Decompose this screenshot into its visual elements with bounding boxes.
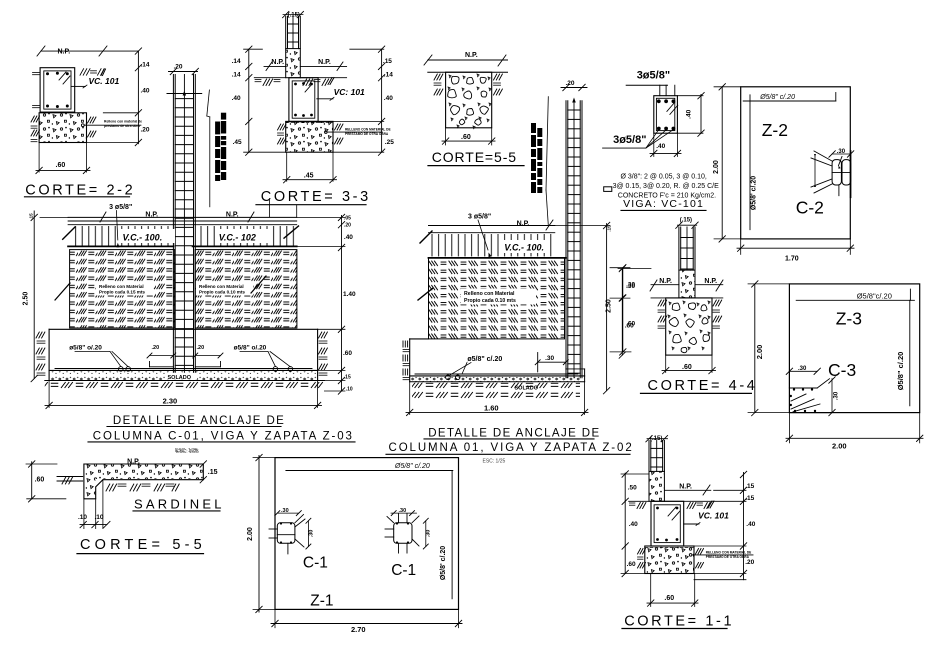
svg-text:.20: .20	[141, 127, 150, 134]
corte 1-1: footing side hatch right	[696, 549, 699, 555]
Z-3: left dim line 2.00	[754, 284, 756, 413]
svg-text:2.50: 2.50	[606, 299, 613, 313]
Z-3: C-3 break diagonal	[817, 379, 829, 388]
svg-text:2.50: 2.50	[23, 292, 30, 306]
sardinel: curb speckles	[85, 465, 203, 480]
corte 1-1: glass break diagonal	[668, 507, 676, 516]
svg-text:.60: .60	[343, 350, 352, 357]
Z-03: N.P. tick slashes	[100, 212, 106, 222]
svg-text:Propio cada 0.15 mts: Propio cada 0.15 mts	[99, 290, 145, 295]
ladder2: thin leader line with arrow	[572, 98, 576, 103]
svg-text:C-1: C-1	[303, 555, 328, 572]
corte 3-3: right dimension line	[381, 49, 383, 152]
ladder1: vertical note text blocks	[215, 122, 220, 135]
svg-text:.40: .40	[686, 109, 693, 118]
svg-text:Relleno con Material: Relleno con Material	[464, 291, 515, 297]
Z-02: solado bottom line	[410, 381, 585, 383]
ladder1: rails and rungs	[172, 75, 174, 375]
svg-text:.45: .45	[233, 139, 242, 146]
svg-text:ø5/8" o/.20: ø5/8" o/.20	[69, 345, 102, 352]
svg-text:.30: .30	[545, 355, 554, 362]
viga: caption underline	[621, 209, 706, 211]
svg-text:VIGA: VC-101: VIGA: VC-101	[623, 198, 704, 210]
svg-text:.40: .40	[384, 95, 393, 102]
svg-text:VC. 101: VC. 101	[89, 76, 120, 86]
svg-text:Ø 3/8": 2 @ 0.05, 3 @ 0.10,: Ø 3/8": 2 @ 0.05, 3 @ 0.10,	[621, 174, 707, 181]
svg-text:2.00: 2.00	[247, 527, 254, 541]
svg-text:.20: .20	[197, 345, 205, 351]
svg-text:1.40: 1.40	[343, 291, 356, 298]
corte 3-3: beam stirrup rect	[292, 81, 315, 118]
Z-02: footing outline	[410, 338, 429, 340]
corte 1-1: bottom dim .60	[650, 574, 652, 607]
corte 4-4: side hatch left	[658, 300, 661, 306]
svg-text:.60: .60	[35, 477, 45, 484]
Z-03: right dim column	[341, 216, 343, 392]
beam detail: VIGA VC-101	[603, 70, 719, 211]
svg-text:CORTE= 4-4: CORTE= 4-4	[648, 378, 758, 394]
svg-text:.14: .14	[232, 72, 241, 79]
svg-text:Ø5/8"c/.20: Ø5/8"c/.20	[857, 291, 892, 300]
viga: rebar dots top	[657, 99, 661, 103]
svg-text:Propio cada 0.10 mts: Propio cada 0.10 mts	[464, 298, 516, 304]
sardinel: left dim .60	[31, 462, 33, 499]
svg-text:.40: .40	[629, 521, 638, 528]
corte 3-3: glass break diagonal	[305, 84, 312, 92]
corte 3-3: ground hatch right	[300, 77, 346, 79]
svg-text:N.P.: N.P.	[58, 49, 71, 56]
corte 3-3: leader to label	[317, 98, 333, 100]
corte 1-1: left dim .50	[624, 473, 626, 501]
svg-text:.14: .14	[384, 72, 393, 79]
Z-1: outline rect	[275, 458, 459, 610]
corte 3-3: leader to fill note	[325, 131, 328, 134]
corte 2-2: title underline	[25, 196, 130, 198]
viga: stirrup drop lines	[659, 85, 661, 96]
corte 4-4: bottom dim .60	[665, 355, 667, 372]
corte 5-5: side hatch right	[494, 74, 497, 80]
sardinel: dims .10 .10	[83, 499, 85, 529]
Z-03: left wall hatch block	[70, 250, 175, 328]
svg-text:V.C.- 100.: V.C.- 100.	[504, 243, 544, 253]
svg-text:SOLADO: SOLADO	[168, 375, 192, 381]
svg-text:CORTE= 2-2: CORTE= 2-2	[25, 182, 135, 198]
svg-text:3 ø5/8": 3 ø5/8"	[468, 214, 491, 221]
Z-2: C-2 tie fan lines	[814, 151, 832, 161]
viga: beam outer rect	[654, 96, 678, 134]
svg-text:3ø5/8": 3ø5/8"	[613, 134, 646, 146]
Z-03: solado dots row	[50, 372, 317, 381]
corte 1-1: footing concrete	[645, 546, 694, 574]
ladder2: vertical note text blocks	[531, 123, 536, 133]
Z-03: bottom dim 2.30	[48, 381, 50, 408]
svg-text:N.P.: N.P.	[659, 278, 672, 285]
corte 4-4: left dims	[621, 269, 623, 356]
Z-02: right dim 2.50	[606, 224, 608, 391]
corte 5-5: gravel block with stones	[446, 72, 492, 128]
section title group: CORTE 4-4	[618, 218, 757, 395]
Z-02: bottom dim 1.60	[409, 382, 411, 415]
corte 3-3: speckled column above ground	[286, 49, 301, 78]
Z-02: beam band with ticks	[430, 234, 554, 256]
viga: right dim .40 rotated	[700, 94, 702, 133]
detail: SARDINEL curb, corte 5-5 bottom	[26, 449, 225, 554]
svg-text:V.C.- 102: V.C.- 102	[219, 233, 256, 243]
Z-03: column base hooks	[150, 366, 174, 368]
svg-text:.20: .20	[745, 559, 754, 566]
svg-text:C-3: C-3	[828, 360, 856, 380]
svg-text:N.P.: N.P.	[318, 59, 331, 66]
corte 5-5: slab outline	[428, 59, 508, 61]
corte 1-1: ground lines and hatch	[629, 500, 649, 502]
svg-text:.30: .30	[834, 391, 840, 400]
svg-text:3@ 0.15, 3@ 0.20, R. @ 0.25 C/: 3@ 0.15, 3@ 0.20, R. @ 0.25 C/E	[613, 183, 719, 190]
svg-text:Relleno con material de: Relleno con material de	[104, 120, 142, 124]
svg-text:2.30: 2.30	[163, 397, 178, 406]
svg-text:.50: .50	[628, 485, 637, 492]
svg-text:Ø5/8" c/.20: Ø5/8" c/.20	[394, 463, 430, 470]
Z-03: slab top lines	[68, 216, 297, 218]
svg-text:.05: .05	[344, 216, 351, 222]
section title group: CORTE 2-2	[25, 46, 150, 198]
svg-text:.10: .10	[95, 514, 104, 521]
Z-3: outline rect	[789, 284, 919, 413]
section title group: CORTE 5-5 top	[424, 52, 524, 166]
Z-3: C-3 inner diagonals	[791, 399, 814, 409]
svg-text:.15: .15	[208, 469, 218, 476]
sardinel: ground lines left	[57, 476, 83, 478]
Z-1: top rebar line	[286, 470, 453, 472]
corte 1-1: leader to fill note	[689, 554, 692, 557]
svg-text:.10: .10	[78, 514, 87, 521]
svg-text:2.00: 2.00	[713, 160, 720, 174]
Z-03: ground soil strip	[45, 382, 325, 392]
ladder1: thin leader line	[207, 90, 210, 116]
corte 3-3: N.P. level lines	[264, 65, 286, 67]
svg-text:.45: .45	[304, 173, 314, 180]
viga: top bar line	[626, 84, 667, 86]
svg-text:RELLENO CON MATERIAL DE: RELLENO CON MATERIAL DE	[345, 128, 391, 132]
Z-03: SOLADO text	[165, 373, 197, 380]
Z-03: footing side hatch right stack	[319, 332, 322, 338]
svg-text:.60: .60	[627, 561, 636, 568]
Z-2: C-2 column pills	[832, 160, 841, 185]
svg-text:V.C.- 100.: V.C.- 100.	[123, 233, 163, 243]
svg-text:Ø5/8" c/.20: Ø5/8" c/.20	[759, 94, 795, 101]
big detail: anclaje columna 01 viga y zapata Z-02	[386, 214, 636, 465]
corte 1-1: leader to label	[684, 523, 699, 525]
svg-text:.10: .10	[346, 387, 353, 393]
Z-03: footing bottom rebar line	[49, 369, 318, 371]
svg-text:.15: .15	[745, 495, 754, 502]
svg-text:N.P.: N.P.	[704, 278, 717, 285]
svg-text:.20: .20	[152, 345, 160, 351]
ladder2: rails and rungs	[565, 101, 567, 378]
svg-text:COLUMNA 01, VIGA Y ZAPATA: COLUMNA 01, VIGA Y ZAPATA Z-02	[389, 442, 634, 454]
corte 3-3: footing side hatch left	[278, 124, 281, 130]
corte 2-2: right dimension line	[137, 51, 139, 144]
svg-text:.25: .25	[385, 139, 394, 146]
Z-03: footing outline	[49, 328, 318, 330]
svg-text:.15: .15	[344, 375, 351, 381]
corte 3-3: footing concrete	[286, 121, 333, 152]
corte 3-3: bottom dimension .45	[286, 152, 288, 181]
corte 3-3: beam rebar dots	[294, 83, 297, 86]
svg-text:DETALLE DE ANCLAJE DE: DETALLE DE ANCLAJE DE	[428, 428, 600, 440]
svg-text:.40: .40	[141, 88, 150, 95]
corte 3-3: beam outer outline	[289, 78, 318, 122]
svg-text:.40: .40	[344, 234, 353, 241]
svg-text:1.70: 1.70	[785, 256, 799, 263]
corte 2-2: rebar dots	[46, 72, 49, 75]
svg-text:.15: .15	[29, 213, 34, 220]
svg-text:CORTE=5-5: CORTE=5-5	[432, 149, 517, 165]
corte 2-2: ground hatch right of beam	[80, 69, 84, 76]
svg-text:Ø5/8" c/.20: Ø5/8" c/.20	[896, 352, 905, 391]
corte 4-4: title underline	[641, 392, 752, 394]
svg-text:COLUMNA C-01, VIGA Y ZAPAT: COLUMNA C-01, VIGA Y ZAPATA Z-03	[93, 431, 354, 443]
Z-3: C-3 column box	[789, 387, 817, 389]
corte 3-3: footing side hatch right	[335, 124, 338, 130]
corte 4-4: speckled column	[679, 270, 695, 298]
svg-text:.60: .60	[664, 595, 674, 602]
Z-1: right rebar vertical line	[451, 471, 453, 599]
svg-text:.30: .30	[309, 530, 315, 538]
svg-text:2.70: 2.70	[351, 625, 366, 634]
ladder1: crossing level line	[167, 93, 202, 95]
viga: glass break diagonals	[667, 102, 675, 111]
corte 1-1: beam rebar dots	[656, 507, 659, 510]
svg-text:Z-1: Z-1	[310, 593, 333, 610]
svg-text:.15: .15	[383, 58, 392, 65]
corte 2-2: glass break diagonals in beam	[59, 72, 66, 80]
svg-text:2.00: 2.00	[832, 442, 847, 451]
Z-2: bottom dim 1.70	[740, 239, 742, 255]
corte 1-1: beam outer outline	[651, 501, 684, 546]
svg-text:Ø5/8' c/.20: Ø5/8' c/.20	[440, 546, 447, 580]
Z-03: wall leader slashes	[55, 283, 70, 300]
svg-text:C-2: C-2	[796, 198, 824, 218]
corte 1-1: upper ladder column	[648, 441, 650, 472]
Z-1: C-1 left column	[277, 523, 295, 544]
svg-text:.40: .40	[232, 95, 241, 102]
Z-3: bottom dim 2.00	[788, 413, 790, 443]
svg-text:.30: .30	[426, 530, 432, 538]
svg-text:CORTE= 3-3: CORTE= 3-3	[261, 189, 371, 205]
Z-2: C-2 down arrow	[839, 157, 843, 166]
svg-text:N.P.: N.P.	[465, 52, 478, 59]
svg-text:Ø5/8' c/.20: Ø5/8' c/.20	[751, 176, 758, 210]
column elevation (ladder) above Z-02 detail	[531, 80, 587, 378]
Z-02: beam band bottom line	[429, 257, 567, 259]
svg-text:PRESTAMO DE OTRA OBRA: PRESTAMO DE OTRA OBRA	[345, 132, 389, 136]
corte 4-4: upper ladder column	[678, 227, 680, 270]
big detail: anclaje columna C-01 viga y zapata Z-03	[23, 204, 357, 454]
svg-text:C-1: C-1	[391, 562, 416, 579]
Z-2: top rebar line	[743, 100, 836, 102]
svg-text:.15: .15	[745, 483, 754, 490]
corte 2-2: footing side hatch left	[31, 116, 34, 122]
plan detail: zapata Z-3	[748, 281, 923, 451]
Z-02: break slashes left	[420, 231, 432, 243]
Z-03: right wall fill note	[196, 283, 253, 296]
svg-text:N.P.: N.P.	[271, 59, 284, 66]
Z-03: solado bottom line	[45, 380, 325, 382]
ladder1: leader arrowhead	[183, 91, 187, 96]
svg-text:N.P.: N.P.	[679, 484, 692, 491]
sardinel: hatch under slab	[106, 484, 110, 491]
svg-text:1.60: 1.60	[484, 404, 499, 413]
viga: beam stirrup rect	[656, 98, 674, 130]
section title group: CORTE 1-1	[621, 436, 756, 630]
svg-text:ø5/8" c/.20: ø5/8" c/.20	[467, 356, 502, 363]
corte 1-1: speckled column	[649, 471, 664, 501]
viga: stirrup symbol	[604, 187, 612, 192]
Z-3: C-3 right dim rotated .30	[831, 379, 833, 413]
plan detail: zapata Z-2	[713, 84, 854, 263]
svg-text:SARDINEL: SARDINEL	[134, 496, 225, 511]
svg-text:.40: .40	[746, 521, 755, 528]
svg-text:3ø5/8": 3ø5/8"	[637, 70, 670, 82]
Z-2: outline rect	[741, 87, 851, 239]
svg-text:.20: .20	[344, 223, 351, 229]
corte 2-2: bottom dimension .60	[38, 143, 40, 173]
Z-02: ground soil strip	[412, 383, 580, 400]
svg-text:CORTE= 1-1: CORTE= 1-1	[624, 614, 734, 630]
corte 3-3: title underline	[256, 204, 366, 206]
svg-text:.60: .60	[461, 134, 471, 141]
Z-02: solado dots row	[411, 377, 581, 382]
corte 4-4: slab band lines	[651, 284, 679, 286]
Z-1: left dim 2.00	[258, 455, 260, 612]
svg-text:.60: .60	[56, 162, 66, 169]
corte 2-2: leader to beam label	[71, 85, 85, 87]
section title group: CORTE 3-3	[232, 11, 395, 217]
Z-02: wall fill note	[461, 289, 536, 305]
svg-text:RELLENO CON MATERIAL DE: RELLENO CON MATERIAL DE	[706, 551, 752, 555]
Z-03: footing side hatch left stack	[36, 332, 39, 338]
Z-03: left wall fill note	[96, 283, 153, 296]
Z-03: left dim 2.50	[33, 211, 35, 379]
viga: fan leader lines to bottom bars	[603, 147, 646, 149]
corte 2-2: top level line with ticks	[41, 50, 138, 52]
svg-text:VC: 101: VC: 101	[334, 87, 365, 97]
Z-02: right bracket dims .30/.60	[622, 268, 624, 352]
Z-2: right edge heavy segment	[850, 151, 852, 197]
Z-02: footing right step	[566, 368, 585, 370]
corte 3-3: upper column ladder	[285, 16, 287, 48]
sardinel: right dim .15	[200, 461, 206, 467]
svg-text:VC. 101: VC. 101	[698, 511, 729, 521]
svg-text:ø5/8" o/.20: ø5/8" o/.20	[234, 345, 267, 352]
corte 2-2: ground marks left of beam	[33, 72, 40, 74]
Z-02: N.P. tick slash	[546, 220, 553, 230]
Z-03: beam band bottom line	[68, 245, 173, 247]
svg-text:.14: .14	[141, 62, 150, 69]
corte 5-5: title underline	[428, 165, 524, 167]
Z-03: beam band with stirrup ticks	[74, 226, 174, 246]
corte 1-1: beam stirrup rect	[654, 505, 680, 543]
Z-02: wall hatch block	[429, 258, 565, 339]
Z-2: left dim line 2.00	[721, 87, 723, 239]
corte 4-4: gravel footing	[666, 298, 712, 355]
corte 2-2: footing side hatch right	[88, 117, 91, 123]
corte 2-2: leader line to fill note	[81, 124, 84, 127]
svg-text:2.00: 2.00	[755, 345, 764, 360]
Z-02: footing left hatch stack	[402, 341, 404, 347]
Z-02: SOLADO text	[512, 383, 542, 390]
svg-text:.30: .30	[626, 283, 635, 290]
corte 1-1: left dim .60 and line	[624, 546, 626, 574]
Z-1: C-1 left spokes	[295, 515, 304, 523]
Z-03: right wall hatch block	[195, 250, 297, 328]
svg-text:Z-3: Z-3	[836, 309, 862, 329]
corte 1-1: footing side hatch left	[638, 549, 641, 555]
svg-text:3 ø5/8": 3 ø5/8"	[109, 204, 132, 211]
corte 1-1: title underline	[622, 628, 727, 630]
sardinel: curb outline	[84, 464, 203, 499]
svg-text:.60: .60	[626, 321, 635, 328]
Z-3: top rebar line	[796, 299, 914, 301]
ladder1: top dim line	[169, 71, 198, 73]
svg-text:DETALLE DE ANCLAJE DE: DETALLE DE ANCLAJE DE	[113, 415, 285, 427]
Z-02: .30 bracket under ladder	[537, 353, 539, 372]
Z-2: left rebar line vertical	[749, 95, 751, 230]
Z-2: C-2 below line	[838, 185, 840, 196]
plan detail: zapata Z-1	[247, 454, 462, 634]
svg-text:Propio cada 0.10 mts: Propio cada 0.10 mts	[199, 290, 245, 295]
svg-text:.15: .15	[607, 225, 612, 232]
corte 2-2: beam VC-101 outer outline	[40, 68, 75, 112]
corte 3-3: stray extension lines below title	[269, 200, 271, 217]
corte 2-2: beam stirrup inner rect	[44, 71, 71, 109]
Z-3: C-3 rebar dots	[793, 388, 795, 390]
corte 3-3: left dimension line	[248, 49, 250, 152]
svg-text:ESC: 1/25: ESC: 1/25	[483, 459, 506, 465]
svg-text:N.P.: N.P.	[517, 221, 530, 228]
svg-text:Relleno con Material: Relleno con Material	[99, 284, 144, 289]
corte 1-1: right dim line	[743, 472, 745, 579]
svg-text:PRESTAMO DE OTRA OBRA: PRESTAMO DE OTRA OBRA	[706, 555, 750, 559]
viga: rebar dots bottom	[657, 127, 661, 131]
svg-text:.14: .14	[232, 58, 241, 65]
corte 1-1: N.P. line	[664, 489, 710, 491]
svg-text:Z-2: Z-2	[762, 120, 788, 140]
svg-text:.20: .20	[566, 80, 575, 87]
Z-02: footing bottom lines	[410, 375, 585, 377]
Z-03: break slashes ends	[63, 227, 75, 239]
Z-02: slab top lines	[429, 225, 555, 227]
svg-text:Relleno con Material: Relleno con Material	[199, 284, 244, 289]
svg-text:ESC: 1/25: ESC: 1/25	[176, 449, 199, 455]
corte 5-5: side hatch left	[434, 74, 437, 80]
svg-text:.60: .60	[682, 364, 692, 371]
svg-text:prestamo de otra obra: prestamo de otra obra	[104, 124, 140, 128]
corte 3-3: ground line and hatch left	[254, 77, 285, 79]
Z-1: bottom dim 2.70	[274, 609, 276, 627]
corte 5-5: bottom dim .60	[445, 128, 447, 145]
corte 4-4: side hatch right	[713, 300, 716, 306]
Z-1: C-1 right spokes	[398, 514, 400, 523]
svg-text:.40: .40	[656, 143, 665, 150]
corte 2-2: footing concrete with speckles	[39, 113, 86, 143]
Z-1: C-1 right column	[394, 523, 412, 544]
Z-3: right rebar line vertical	[909, 300, 911, 406]
svg-text:CORTE= 5-5: CORTE= 5-5	[80, 537, 206, 553]
column C-01 elevation (ladder) between corte 2-2 and Z-03	[167, 64, 226, 375]
